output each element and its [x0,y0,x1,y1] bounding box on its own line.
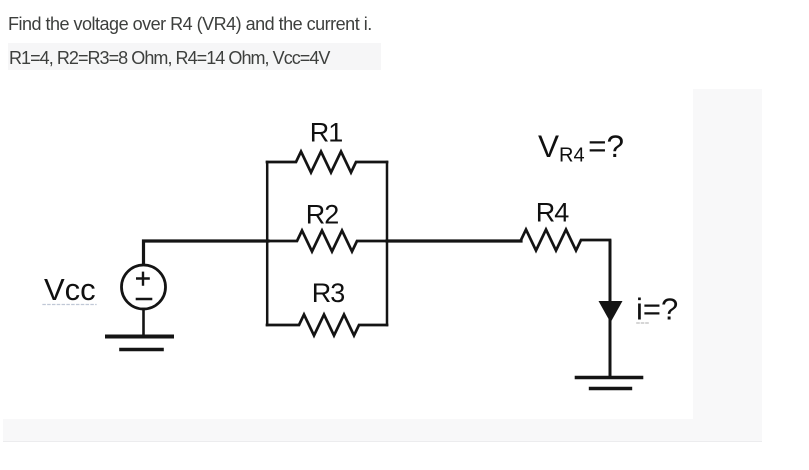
question line 2 highlighted band [8,43,381,70]
label Vcc [43,272,96,307]
svg-text:R3: R3 [312,278,345,308]
label R1 [310,118,343,148]
wire: left bus of parallel box [266,162,269,325]
svg-text:R1: R1 [310,118,343,148]
wire: Vcc negative lead to ground [142,309,145,335]
label R3 [312,278,345,308]
label R2 [306,200,339,230]
wire: parallel box to R4 [387,239,521,242]
resistor R2 [267,231,387,252]
ground (left, below Vcc) [107,337,172,350]
gray strip bottom of circuit image [3,419,762,442]
question line 1 [8,14,372,35]
current arrow i (downwards) [599,301,623,323]
label i=? [636,292,678,327]
svg-text:R2: R2 [306,200,339,230]
svg-text:Vcc: Vcc [44,272,96,307]
ground (right, below current arrow) [577,378,642,389]
svg-text:R4: R4 [536,198,569,228]
label VR4=? [538,128,624,167]
resistor R1 [267,152,387,173]
svg-text:i=?: i=? [636,292,678,327]
resistor R3 [267,315,387,336]
wire: R4 down to ground [609,241,612,377]
label R4 [536,198,569,228]
wire: Vcc positive lead up to node A and across to parallel box [144,241,269,265]
gray strip right of circuit image [693,89,762,442]
wire: right bus of parallel box [386,162,389,325]
voltage source Vcc [122,265,166,309]
question line 2 [9,48,329,69]
resistor R4 [521,230,610,251]
svg-text:VR4=?: VR4=? [538,128,624,167]
